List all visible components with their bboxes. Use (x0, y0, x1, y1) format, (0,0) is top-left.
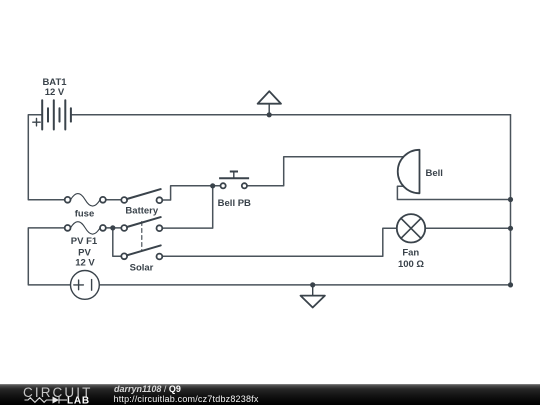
svg-text:Bell PB: Bell PB (218, 198, 251, 209)
node B junction dot (110, 225, 115, 230)
wire Battery switch output to node A (162, 186, 220, 200)
junction dot bottom bus / right bus (508, 282, 513, 287)
pushbutton Bell PB (221, 183, 247, 188)
ground flag (down triangle) (312, 285, 314, 296)
wire node B down to Solar switch lower (113, 228, 121, 256)
wire fuse to Battery switch (106, 199, 121, 201)
junction dot bell wire / right bus (508, 197, 513, 202)
CircuitLab logo (0, 384, 110, 405)
wire battery negative lead (top bus) (71, 114, 511, 116)
svg-text:Solar: Solar (130, 263, 154, 274)
switch SW Battery (121, 197, 162, 203)
svg-text:100 Ω: 100 Ω (398, 259, 424, 270)
lamp Fan (397, 214, 425, 242)
wire battery positive lead to fuse (28, 115, 64, 200)
wire Solar switch upper output to node A (162, 186, 212, 228)
power flag (up triangle) (268, 104, 270, 115)
wire right bus (510, 115, 512, 285)
switch SW Solar lower pole (121, 253, 162, 259)
footer text (114, 384, 181, 394)
svg-text:Fan: Fan (402, 248, 419, 259)
wire fuse PV F1 to Solar switch upper (106, 227, 121, 229)
junction dot fan wire / right bus (508, 226, 513, 231)
wire fan to right bus (425, 227, 510, 229)
svg-text:LAB: LAB (67, 396, 90, 405)
svg-text:fuse: fuse (75, 209, 95, 220)
svg-text:Bell: Bell (426, 168, 443, 179)
bell (398, 150, 420, 194)
wire Solar switch lower output to fan (162, 228, 396, 256)
svg-text:12 V: 12 V (45, 87, 65, 98)
wire PV F1 fuse to PV source (28, 228, 70, 285)
svg-text:12 V: 12 V (75, 257, 95, 268)
fuse (battery) (65, 197, 106, 203)
node A junction dot (210, 183, 215, 188)
footer bar (0, 384, 540, 405)
wire Bell PB output to bell (247, 157, 404, 186)
fuse PV F1 (65, 225, 106, 231)
voltage source PV 12V (71, 271, 100, 300)
switch SW Solar upper pole (121, 225, 162, 231)
svg-text:Battery: Battery (125, 206, 158, 217)
svg-text:PV F1: PV F1 (71, 236, 98, 247)
battery BAT1 (42, 100, 71, 129)
wire bell bottom to right bus (397, 186, 510, 199)
wire PV source to right bus (bottom bus) (99, 284, 510, 286)
